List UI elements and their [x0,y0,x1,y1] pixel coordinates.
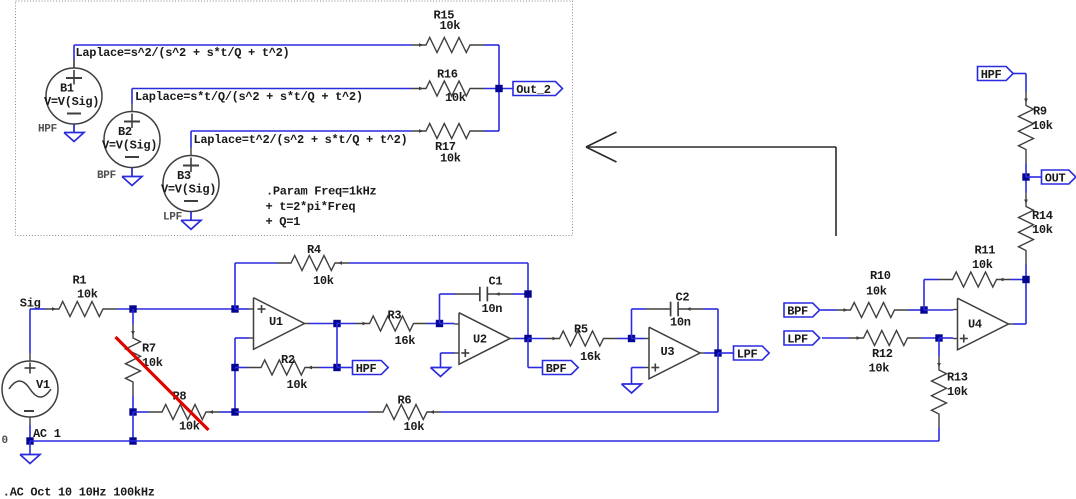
svg-text:R5: R5 [574,323,588,337]
resistor R1 [45,274,117,317]
wire R11 to output bus [1011,279,1027,281]
resistor R13 [932,356,968,428]
resistor R2 [247,353,319,392]
svg-text:R12: R12 [872,347,893,361]
wire R15 to Out_2 bus [484,45,499,89]
wire U2 plus to ground [441,353,455,368]
resistor R7 [126,324,163,396]
behavioral source B1 wire stub [73,60,75,68]
ground below B2 [122,177,142,186]
node C1/R4 bus junction [524,290,531,297]
flag BPF input [784,303,820,318]
wire R1 to main node [117,308,235,310]
svg-text:10k: 10k [440,152,461,166]
flag BPF output [543,361,579,376]
svg-text:10k: 10k [869,362,890,376]
net label BPF at B2 [97,170,116,182]
node R1/R7 junction [129,305,136,312]
svg-text:C1: C1 [489,275,503,289]
svg-text:R11: R11 [975,244,996,258]
svg-text:10k: 10k [440,19,461,33]
wire R9 to HPF flag [1013,74,1026,92]
svg-text:R2: R2 [281,353,295,367]
node U1 output junction [333,320,340,327]
flag LPF output [734,346,770,361]
behavioral source B2 [102,104,160,177]
svg-text:U3: U3 [661,345,675,359]
wire R8 left lead [133,411,148,413]
resistor R3 [356,309,428,349]
wire U1 out to R3 [337,323,356,325]
wire R12 to U4+ node [922,337,940,339]
svg-text:B1: B1 [60,82,74,96]
ground below B3 [181,220,201,229]
ground below U2 input [431,368,451,377]
behavioral source B1 [44,60,102,133]
svg-text:R4: R4 [307,243,321,257]
svg-text:10k: 10k [179,420,200,434]
svg-text:V1: V1 [36,378,50,392]
wire R3 to U2 node [428,323,440,325]
svg-text:R1: R1 [73,274,87,288]
capacitor C1 [455,275,513,317]
svg-text:BPF: BPF [546,362,567,376]
wire B3 to ground [190,212,192,221]
voltage source V1 [2,361,61,441]
wire main node to U1 plus [235,308,249,310]
svg-text:16k: 16k [395,334,416,348]
svg-text:BPF: BPF [787,304,808,318]
svg-text:10n: 10n [482,302,503,316]
svg-text:R13: R13 [947,371,968,385]
ground below U3 input [622,384,642,393]
node R7/R8 junction [129,408,136,415]
svg-text:10k: 10k [1032,119,1053,133]
wire R16 to Out_2 node [484,88,513,90]
node HPF flag junction [333,364,340,371]
resistor R11 [939,244,1011,288]
wire node to U4 minus [924,309,953,311]
flag HPF input [978,67,1014,82]
wire node to U3 minus [632,338,645,340]
net label 0 [2,435,8,447]
wire node to R7 [132,309,134,324]
node V1 bottom junction [26,437,33,444]
wire R17 to Out_2 bus [484,89,499,132]
node Out_2 junction [495,85,502,92]
svg-text:LPF: LPF [787,332,808,346]
svg-text:Out_2: Out_2 [516,83,551,97]
svg-text:HPF: HPF [356,362,377,376]
svg-text:R14: R14 [1032,209,1053,223]
svg-text:.Param Freq=1kHz: .Param Freq=1kHz [266,185,377,199]
resistor R5 [546,323,618,365]
wire BPF drop [528,339,543,368]
svg-text:B2: B2 [118,125,132,139]
wire OUT node to flag [1026,176,1042,178]
flag LPF input [784,331,820,346]
svg-text:10k: 10k [947,385,968,399]
svg-text:10k: 10k [972,258,993,272]
op-amp U4 [953,298,1013,350]
value label B2 Laplace [135,90,363,104]
wire Sig corner to V1 and R1 [30,309,45,353]
svg-text:R3: R3 [388,309,402,323]
ground below V1 [20,455,40,464]
wire U1 output [309,323,338,325]
svg-text:C2: C2 [676,291,690,305]
wire U3 plus to ground [632,368,645,385]
node R3/U2- junction [436,320,443,327]
svg-text:OUT: OUT [1045,171,1066,185]
wire node to U4 plus [939,337,953,339]
wire C1 to bus [513,293,529,295]
svg-text:HPF: HPF [981,68,1002,82]
node rail below R7 [129,437,136,444]
svg-text:V=V(Sig): V=V(Sig) [102,138,157,152]
wire C1 riser [440,294,456,324]
svg-text:+ Q=1: + Q=1 [266,215,301,229]
voltage source V1 pin stubs [29,353,31,425]
wire U1 minus to left bus [235,338,249,412]
wire B1 to ground [73,124,75,133]
svg-text:AC 1: AC 1 [33,427,61,441]
wire R7 to R8 node [132,396,134,412]
red strike-out line over R7/R8 [116,337,209,430]
svg-text:HPF: HPF [38,124,57,136]
node R5/U3- junction [628,335,635,342]
svg-text:R9: R9 [1033,105,1047,119]
node R2 row junction [231,364,238,371]
svg-text:Laplace=s*t/Q/(s^2 + s*t/Q + t: Laplace=s*t/Q/(s^2 + s*t/Q + t^2) [135,90,363,104]
node OUT junction [1022,173,1029,180]
node U4+ junction [935,334,942,341]
wire R2 to HPF node [319,367,337,369]
svg-text:B3: B3 [177,169,191,183]
svg-text:10k: 10k [1032,223,1053,237]
resistor R14 [1019,193,1053,265]
svg-text:.AC Oct 10 10Hz 100kHz: .AC Oct 10 10Hz 100kHz [3,485,155,499]
wire LPF flag to R12 [822,337,850,339]
wire B2 to R16 row [132,89,412,104]
svg-text:10k: 10k [404,420,425,434]
flag HPF output [353,361,389,376]
svg-text:U1: U1 [269,315,283,329]
wire riser to R4 row [235,263,277,309]
svg-text:0: 0 [2,435,8,447]
wire C2 to U3 out bus [703,309,718,353]
op-amp U3 [645,327,705,379]
svg-text:10n: 10n [670,316,691,330]
svg-text:V=V(Sig): V=V(Sig) [161,182,216,196]
resistor R17 [412,124,484,166]
capacitor C2 [646,291,703,330]
wire R5 to U3 node [618,338,632,340]
node U2 output junction [524,335,531,342]
svg-text:Laplace=s^2/(s^2 + s*t/Q + t^2: Laplace=s^2/(s^2 + s*t/Q + t^2) [76,46,290,60]
svg-text:LPF: LPF [163,212,182,224]
svg-text:10k: 10k [313,274,334,288]
net label LPF at B3 [163,212,182,224]
node U1- bus / R6 junction [231,408,238,415]
svg-text:BPF: BPF [97,170,116,182]
wire R11 riser [924,280,939,311]
node U4- junction [920,306,927,313]
arrow annotation [586,132,836,236]
svg-text:R10: R10 [870,269,891,283]
wire node to U2 minus [440,323,455,325]
svg-text:V=V(Sig): V=V(Sig) [44,95,99,109]
node U3 output junction [714,349,721,356]
net label HPF at B1 [38,124,57,136]
wire R14 to OUT node [1025,177,1027,193]
svg-text:U4: U4 [968,318,982,332]
dashed annotation box [16,1,573,236]
wire R2 left lead [235,367,247,369]
spice directive .AC [3,485,155,499]
wire OUT node to R9 [1025,164,1027,178]
wire HPF node to flag [337,367,353,369]
value label B1 Laplace [76,46,290,60]
svg-text:16k: 16k [580,350,601,364]
svg-text:R7: R7 [142,342,156,356]
wire U3 output [705,352,719,354]
resistor R4 [277,243,349,288]
op-amp U2 [455,313,515,365]
flag Out_2 [513,82,563,97]
resistor R8 [148,390,220,434]
resistor R9 [1019,92,1053,164]
wire R8 to U1 node [220,411,235,413]
resistor R10 [837,269,909,318]
svg-text:Laplace=t^2/(s^2 + s*t/Q + t^2: Laplace=t^2/(s^2 + s*t/Q + t^2) [194,133,408,147]
flag OUT [1042,170,1076,185]
wire BPF flag to R10 [821,309,837,311]
wire R6 to U1 bus [235,411,369,413]
wire B3 to R17 row [191,131,412,148]
resistor R15 [412,9,484,53]
svg-text:10k: 10k [77,288,98,302]
ground below B1 [64,133,84,142]
svg-text:R16: R16 [437,68,458,82]
resistor R6 [369,394,441,435]
svg-text:10k: 10k [287,378,308,392]
resistor R12 [850,331,922,376]
wire R4 to C1 bus [349,263,528,339]
wire C2 riser [632,309,647,339]
wire R8 node down to rail [132,412,134,441]
wire junction to ground V1 [29,441,31,455]
wire U3 out to LPF flag [718,352,734,354]
wire U2 output [514,338,528,340]
svg-text:+ t=2*pi*Freq: + t=2*pi*Freq [266,200,356,214]
node main/U1+ junction [231,305,238,312]
op-amp U1 [249,298,309,350]
wire V1 to bottom rail [29,425,31,441]
wire U4 output riser [1013,265,1026,325]
svg-text:10k: 10k [866,285,887,299]
net label Sig [20,297,41,311]
wire U2 out to R5 [528,338,546,340]
svg-text:LPF: LPF [737,347,758,361]
spice directive .Param [266,185,377,230]
wire R10 to U4- node [909,309,925,311]
resistor R16 [412,68,484,106]
svg-text:10k: 10k [445,91,466,105]
wire LPF feedback down [441,353,718,412]
wire B1 to R15 row [74,45,412,60]
behavioral source B3 [161,148,219,221]
wire B2 to ground [131,168,133,177]
wire U4+ node to R13 [938,338,940,356]
wire bottom rail [30,428,939,441]
svg-text:R6: R6 [398,394,412,408]
value label B3 Laplace [194,133,408,147]
node U4 out/R11/R14 junction [1022,276,1029,283]
svg-text:U2: U2 [473,332,487,346]
wire U1 out down to HPF node [336,324,338,368]
